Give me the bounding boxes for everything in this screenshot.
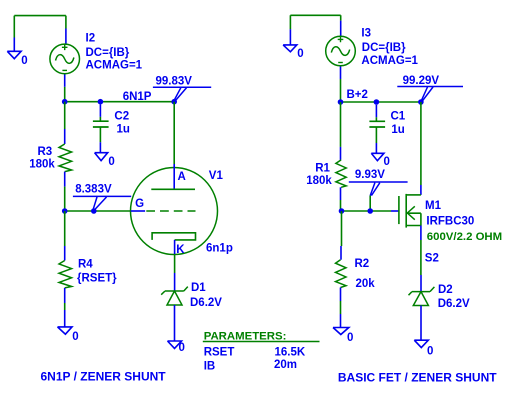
junction at probe/drain xyxy=(418,99,424,105)
current source I2 xyxy=(50,29,80,87)
wire node row B+2 (horizontal) xyxy=(341,101,421,103)
resistor R2 xyxy=(336,246,347,328)
svg-text:I3: I3 xyxy=(361,28,371,40)
capacitor C1 xyxy=(369,105,385,154)
svg-text:V1: V1 xyxy=(209,170,224,182)
svg-text:20m: 20m xyxy=(274,359,297,371)
junction at grid probe xyxy=(91,208,97,214)
svg-text:D6.2V: D6.2V xyxy=(438,298,470,310)
svg-text:BASIC FET / ZENER SHUNT: BASIC FET / ZENER SHUNT xyxy=(338,371,497,385)
svg-text:6N1P / ZENER SHUNT: 6N1P / ZENER SHUNT xyxy=(41,370,167,384)
svg-text:1u: 1u xyxy=(391,124,404,136)
svg-text:0: 0 xyxy=(347,332,353,344)
svg-text:B+2: B+2 xyxy=(347,89,368,101)
svg-text:RSET: RSET xyxy=(204,347,235,359)
capacitor C2 xyxy=(93,105,109,153)
svg-text:R2: R2 xyxy=(355,258,370,270)
junction at probe/anode xyxy=(171,99,177,105)
ground 0 (under R2) xyxy=(333,328,349,335)
zener diode D1 xyxy=(161,273,188,341)
triode V1 xyxy=(131,164,218,255)
ground 0 (under C2) xyxy=(95,153,108,161)
svg-text:9.93V: 9.93V xyxy=(355,169,385,181)
wire node to R3 xyxy=(64,102,66,129)
svg-text:180k: 180k xyxy=(306,175,332,187)
svg-text:0: 0 xyxy=(384,156,390,168)
wire source to D2 xyxy=(420,240,422,275)
svg-text:0: 0 xyxy=(427,346,433,358)
svg-text:K: K xyxy=(176,244,185,256)
parameters block underline xyxy=(203,341,320,343)
voltage probe 99.29V xyxy=(397,75,463,101)
wire gate row horizontal xyxy=(341,210,392,212)
mosfet M1 xyxy=(391,185,421,240)
junction at I2/R3 xyxy=(62,99,68,105)
zener diode D2 xyxy=(409,275,435,340)
wire I2 bottom to node row xyxy=(64,87,66,102)
svg-text:D1: D1 xyxy=(191,282,206,294)
svg-text:0: 0 xyxy=(179,342,185,354)
svg-text:C1: C1 xyxy=(391,111,406,123)
svg-text:D6.2V: D6.2V xyxy=(190,297,222,309)
wire gate row to R2 xyxy=(341,211,343,246)
junction at C1 xyxy=(374,99,380,105)
wire corner to tube anode xyxy=(173,102,175,164)
ground 0 (top left) xyxy=(7,38,21,59)
ground 0 (top right) xyxy=(283,29,297,52)
svg-text:R1: R1 xyxy=(315,163,330,175)
voltage probe 99.83V xyxy=(153,75,211,101)
svg-text:600V/2.2 OHM: 600V/2.2 OHM xyxy=(427,231,502,243)
wire cathode to D1 xyxy=(174,254,176,273)
resistor R1 xyxy=(336,147,346,211)
ground 0 (under D1) xyxy=(168,341,182,348)
svg-text:DC={IB}: DC={IB} xyxy=(362,42,406,54)
svg-text:99.29V: 99.29V xyxy=(403,75,440,87)
current source I3 xyxy=(326,21,356,79)
svg-text:C2: C2 xyxy=(114,111,129,123)
svg-text:ACMAG=1: ACMAG=1 xyxy=(361,55,418,67)
wire grid row to R4 xyxy=(64,211,66,246)
ground 0 (under R4) xyxy=(58,327,73,334)
svg-text:A: A xyxy=(178,171,186,183)
wire drain vertical xyxy=(420,102,422,185)
svg-text:D2: D2 xyxy=(438,284,453,296)
wire node row 6N1P (horizontal) xyxy=(65,101,175,103)
svg-text:16.5K: 16.5K xyxy=(275,347,306,359)
svg-text:DC={IB}: DC={IB} xyxy=(86,47,130,59)
svg-text:M1: M1 xyxy=(425,200,442,212)
wire node to R1 xyxy=(340,102,342,147)
wire ground to I3 top xyxy=(290,15,340,29)
svg-text:99.83V: 99.83V xyxy=(156,75,193,87)
svg-text:1u: 1u xyxy=(117,124,130,136)
junction at R1/R2 xyxy=(339,208,345,214)
svg-text:IRFBC30: IRFBC30 xyxy=(426,215,474,227)
svg-text:PARAMETERS:: PARAMETERS: xyxy=(204,330,287,342)
junction at gate probe xyxy=(367,208,373,214)
svg-text:ACMAG=1: ACMAG=1 xyxy=(86,60,143,72)
svg-text:6n1p: 6n1p xyxy=(206,243,233,255)
svg-text:R4: R4 xyxy=(78,258,93,270)
wire R3 to grid row xyxy=(64,187,66,211)
junction at R3/R4 xyxy=(62,208,68,214)
svg-text:0: 0 xyxy=(21,55,27,67)
svg-text:20k: 20k xyxy=(356,278,376,290)
svg-text:0: 0 xyxy=(108,156,114,168)
ground 0 (under C1) xyxy=(371,153,384,160)
junction at C2 xyxy=(98,99,104,105)
svg-text:0: 0 xyxy=(72,331,78,343)
wire grid row horizontal xyxy=(65,210,131,212)
svg-text:G: G xyxy=(135,198,144,210)
voltage probe 9.93V xyxy=(349,169,408,196)
svg-text:8.383V: 8.383V xyxy=(75,184,112,196)
svg-text:S2: S2 xyxy=(425,253,439,265)
svg-text:180k: 180k xyxy=(29,159,55,171)
resistor R4 xyxy=(59,246,72,327)
svg-text:R3: R3 xyxy=(38,146,53,158)
resistor R3 xyxy=(59,129,72,187)
svg-text:IB: IB xyxy=(204,361,216,373)
voltage probe 8.383V xyxy=(73,184,131,210)
svg-text:I2: I2 xyxy=(86,33,96,45)
wire probe stub xyxy=(369,196,371,211)
junction at I3/R1 xyxy=(338,99,344,105)
wire ground to I2 top xyxy=(14,16,66,38)
svg-text:0: 0 xyxy=(297,48,303,60)
svg-text:6N1P: 6N1P xyxy=(123,91,152,103)
wire I3 bottom to node row xyxy=(340,79,342,102)
svg-text:{RSET}: {RSET} xyxy=(77,272,117,284)
ground 0 (under D2) xyxy=(414,340,428,347)
